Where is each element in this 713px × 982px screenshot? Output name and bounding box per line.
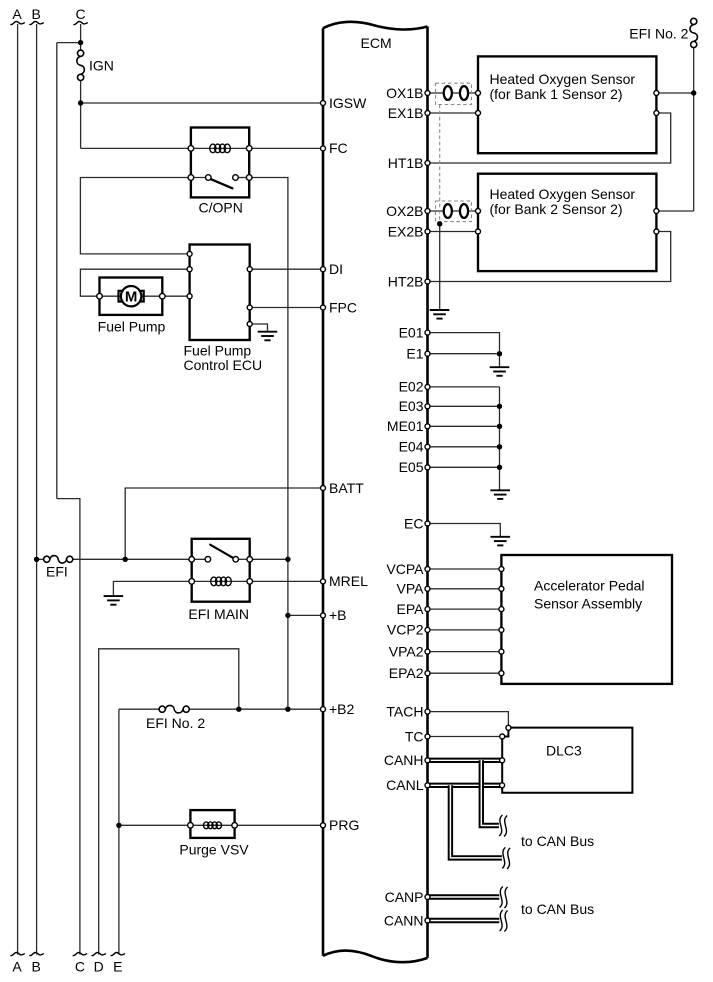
pin VCPA on ECM right edge	[425, 567, 430, 572]
pin CANN on ECM right edge	[425, 918, 430, 923]
break: bus E bottom	[111, 952, 125, 955]
pin label OX1B	[386, 85, 423, 101]
accelerator pedal sensor assembly box	[501, 555, 672, 684]
svg-text:VCP2: VCP2	[387, 622, 424, 638]
wire: shield drain to ground	[439, 224, 441, 309]
label heated oxygen sensor bank2	[490, 186, 636, 217]
svg-text:+B: +B	[329, 607, 347, 623]
pin: fuel pump control ECU left pins	[187, 251, 192, 298]
relay EFI MAIN coil pins	[189, 579, 253, 585]
pin: accelerator pedal sensor pins	[499, 567, 504, 676]
svg-text:Accelerator Pedal: Accelerator Pedal	[534, 577, 645, 593]
svg-text:EX2B: EX2B	[388, 223, 424, 239]
pin label E02	[399, 379, 424, 395]
node label C bottom	[75, 959, 85, 975]
svg-text:A: A	[12, 6, 22, 22]
wire: CANL bus (thick) ECM to DLC3	[428, 783, 503, 788]
wire: EFI MAIN coil row	[192, 580, 250, 582]
ECM right edge	[426, 27, 429, 958]
break: bus A top	[10, 21, 24, 24]
pin: bank2 sensor box pins	[476, 209, 659, 235]
svg-text:E: E	[113, 959, 122, 975]
svg-text:VCPA: VCPA	[386, 561, 424, 577]
svg-text:FPC: FPC	[329, 299, 357, 315]
svg-text:E02: E02	[399, 379, 424, 395]
node label A bottom	[12, 959, 22, 975]
svg-text:M: M	[125, 288, 138, 305]
svg-text:HT1B: HT1B	[388, 155, 424, 171]
pin VPA on ECM right edge	[425, 586, 430, 591]
wire: bus A vertical	[17, 24, 19, 955]
pin CANH on ECM right edge	[425, 758, 430, 763]
purge VSV coil	[204, 822, 222, 829]
pin label DI	[329, 261, 343, 277]
node label A top	[12, 6, 22, 22]
node label C top	[76, 6, 86, 22]
svg-text:MREL: MREL	[329, 573, 368, 589]
pin EX1B on ECM right edge	[425, 111, 430, 116]
wire: bank2 heater- return to HT2B	[428, 232, 671, 282]
node label B bottom	[32, 959, 41, 975]
label Fuel Pump Control ECU	[184, 343, 263, 374]
label to CAN Bus (upper)	[521, 833, 594, 849]
junction: E04 node	[497, 444, 502, 449]
ground: E1/E01	[490, 367, 510, 376]
wire: jog to bottom bus C	[57, 499, 80, 955]
pin E1 on ECM right edge	[425, 351, 430, 356]
wire: EFI No.2 vertical feed	[693, 48, 695, 211]
wire: E05 row	[428, 466, 500, 468]
svg-text:EFI MAIN: EFI MAIN	[188, 606, 249, 622]
svg-text:CANP: CANP	[385, 889, 424, 905]
pin label CANL	[386, 777, 424, 793]
svg-text:E01: E01	[399, 324, 424, 340]
wire: left branch vertical down to jog	[56, 43, 58, 499]
relay C/OPN coil pins	[188, 146, 252, 152]
wire: CANH bus (thick) ECM to DLC3	[428, 758, 503, 763]
pin label TC	[405, 728, 424, 744]
pin label EX1B	[388, 105, 424, 121]
wire: ECU ground stub	[250, 324, 268, 331]
wire: fuel pump motor row	[100, 295, 163, 297]
junction: PRG tap on bus E	[116, 823, 121, 828]
break: bus C bottom	[73, 952, 87, 955]
svg-text:CANN: CANN	[384, 912, 424, 928]
junction: IGSW tap	[78, 100, 83, 105]
svg-text:E1: E1	[406, 346, 423, 362]
svg-text:EFI No. 2: EFI No. 2	[146, 715, 205, 731]
svg-text:Heated Oxygen Sensor: Heated Oxygen Sensor	[490, 186, 636, 202]
wire: EFI fuse row left lead	[37, 558, 44, 560]
pin TACH on ECM right edge	[425, 709, 430, 714]
fuse EFI No.2 (+B2 row)	[159, 705, 189, 713]
junction: EFI No.2 heater feed	[691, 90, 696, 95]
wire: DI row left of ECU to fuel pump loop	[80, 269, 189, 296]
svg-text:B: B	[32, 6, 41, 22]
svg-text:IGN: IGN	[89, 58, 114, 74]
pin: fuel pump control ECU right pins	[247, 267, 252, 327]
ECM top wavy edge	[323, 22, 428, 30]
junction: E1 ground node	[497, 351, 502, 356]
svg-text:IGSW: IGSW	[329, 95, 367, 111]
pin label ME01	[387, 418, 424, 434]
svg-text:+B2: +B2	[329, 701, 355, 717]
relay C/OPN box	[191, 128, 249, 198]
svg-text:DI: DI	[329, 261, 343, 277]
break: CANL branch wire break	[502, 847, 510, 869]
relay C/OPN switch pins	[188, 175, 252, 181]
junction: BATT tap	[123, 557, 128, 562]
svg-text:Sensor Assembly: Sensor Assembly	[534, 595, 642, 611]
pin FC on ECM left edge	[321, 146, 326, 151]
svg-text:FC: FC	[329, 140, 348, 156]
pin label VCPA	[386, 561, 424, 577]
label EFI MAIN	[188, 606, 249, 622]
pin FPC on ECM left edge	[321, 305, 326, 310]
pin +B2 on ECM left edge	[321, 707, 326, 712]
wire: E01 row	[428, 333, 500, 354]
wire: CANN bus (thick)	[428, 918, 500, 923]
wire: E1 ground drop	[499, 354, 501, 367]
wire: OX2B row	[428, 210, 479, 212]
pin label CANN	[384, 912, 424, 928]
wire: +B2 row	[189, 708, 323, 710]
wire: bottom bus E	[118, 709, 120, 954]
label IGN	[89, 58, 114, 74]
pin E01 on ECM right edge	[425, 330, 430, 335]
pin label E05	[399, 459, 424, 475]
wire: FPC row	[250, 307, 323, 309]
svg-text:(for Bank 2 Sensor 2): (for Bank 2 Sensor 2)	[490, 201, 623, 217]
pin label CANH	[384, 752, 424, 768]
svg-text:EPA2: EPA2	[389, 665, 424, 681]
svg-text:CANL: CANL	[386, 777, 424, 793]
pin label EC	[404, 515, 423, 531]
pin VPA2 on ECM right edge	[425, 649, 430, 654]
pin label VPA2	[389, 643, 424, 659]
label Purge VSV	[179, 842, 249, 858]
svg-text:EX1B: EX1B	[388, 105, 424, 121]
label accelerator pedal sensor assembly	[534, 577, 645, 611]
wire: bank1 heater- return to HT1B	[428, 113, 671, 163]
pin OX1B on ECM right edge	[425, 91, 430, 96]
svg-text:C/OPN: C/OPN	[199, 200, 243, 216]
pin label MREL	[329, 573, 368, 589]
pin VCP2 on ECM right edge	[425, 627, 430, 632]
svg-text:VPA2: VPA2	[389, 643, 424, 659]
label EFI No. 2 (+B2 fuse)	[146, 715, 205, 731]
wire: VPA row	[428, 588, 502, 590]
break: bus A bottom	[10, 952, 24, 955]
svg-text:PRG: PRG	[329, 817, 359, 833]
wire: BATT row	[125, 488, 323, 559]
break: bus C top	[73, 21, 87, 24]
pin PRG on ECM left edge	[321, 823, 326, 828]
shield: dashed drain vertical	[439, 105, 441, 224]
break: CANN wire break	[500, 910, 508, 932]
pin: bank1 sensor box pins	[476, 91, 659, 116]
pin IGSW on ECM left edge	[321, 101, 326, 106]
pin E02 on ECM right edge	[425, 384, 430, 389]
ECM left edge	[322, 28, 325, 956]
junction: E05 node	[497, 465, 502, 470]
junction: ME01 node	[497, 424, 502, 429]
fuel pump control ECU box	[190, 245, 250, 341]
pin CANL on ECM right edge	[425, 783, 430, 788]
fuse EFI (horizontal)	[44, 556, 73, 564]
wire: EX2B row	[428, 231, 479, 233]
purge VSV pins	[188, 823, 238, 829]
twisted pair OX2B	[444, 204, 468, 218]
svg-text:EPA: EPA	[397, 601, 425, 617]
fuse IGN (vertical)	[77, 50, 85, 80]
shield: dashed box around OX2B twisted pair	[436, 201, 472, 222]
label EFI No. 2 (top)	[629, 26, 688, 42]
pin label FC	[329, 140, 348, 156]
pin label EX2B	[388, 223, 424, 239]
pin TC on ECM right edge	[425, 734, 430, 739]
wire: EFI MAIN switch output	[250, 558, 288, 560]
svg-text:OX1B: OX1B	[386, 85, 423, 101]
label to CAN Bus (lower)	[521, 901, 594, 917]
label C/OPN	[199, 200, 243, 216]
svg-text:VPA: VPA	[397, 581, 425, 597]
pin label E03	[399, 398, 424, 414]
ground: EC	[491, 537, 511, 546]
wire: E02 row	[428, 386, 500, 388]
wire: OX1B row	[428, 92, 479, 94]
wire: engine ground bus vertical	[499, 387, 501, 490]
label Fuel Pump (pump)	[98, 319, 166, 335]
wire: CANL branch to CAN bus	[450, 785, 502, 858]
wire: EPA row	[428, 608, 502, 610]
pin label EPA2	[389, 665, 424, 681]
pin E04 on ECM right edge	[425, 444, 430, 449]
junction: +B node	[285, 613, 290, 618]
wire: bus C vertical below IGN fuse	[80, 81, 82, 149]
svg-text:D: D	[94, 959, 104, 975]
svg-text:Control ECU: Control ECU	[184, 357, 263, 373]
svg-text:B: B	[32, 959, 41, 975]
label heated oxygen sensor bank1	[490, 71, 636, 102]
node label B top	[32, 6, 41, 22]
svg-text:E03: E03	[399, 398, 424, 414]
twisted pair OX1B	[444, 86, 468, 100]
svg-text:to CAN Bus: to CAN Bus	[521, 901, 594, 917]
relay C/OPN switch	[191, 175, 249, 189]
label EFI	[46, 564, 68, 580]
ground: fuel pump control ECU	[258, 332, 278, 341]
wire: bank2 heater+ from EFI No.2 line	[656, 210, 693, 212]
wire: VPA2 row	[428, 651, 502, 653]
wire: CANP bus (thick)	[428, 894, 500, 899]
relay EFI MAIN switch	[192, 545, 250, 562]
svg-text:ECM: ECM	[361, 35, 392, 51]
wire: EX1B row	[428, 112, 479, 114]
pin label +B2	[329, 701, 355, 717]
wire: DI row	[250, 268, 323, 270]
pin E03 on ECM right edge	[425, 404, 430, 409]
pin +B on ECM left edge	[321, 613, 326, 618]
wire: PRG row	[119, 824, 323, 826]
pin HT2B on ECM right edge	[425, 279, 430, 284]
pin label BATT	[329, 480, 364, 496]
svg-text:E04: E04	[399, 439, 424, 455]
fuse EFI No.2 top (vertical)	[690, 18, 698, 47]
pin MREL on ECM left edge	[321, 579, 326, 584]
junction: EFI fuse on bus B	[34, 557, 39, 562]
ECM bottom wavy edge	[323, 951, 428, 963]
pin label HT1B	[388, 155, 424, 171]
wire: C/OPN switch feed to Fuel Pump Control ECU pin 1	[80, 178, 191, 254]
wire: bottom bus D	[99, 649, 239, 955]
svg-text:OX2B: OX2B	[386, 203, 423, 219]
relay C/OPN coil	[210, 144, 231, 153]
svg-text:TC: TC	[405, 728, 424, 744]
pin label VCP2	[387, 622, 424, 638]
pin label IGSW	[329, 95, 367, 111]
pin HT1B on ECM right edge	[425, 161, 430, 166]
heated oxygen sensor bank2 box	[478, 174, 656, 271]
pin BATT on ECM left edge	[321, 486, 326, 491]
wire: +B2 row left lead	[119, 708, 159, 710]
pin EPA on ECM right edge	[425, 607, 430, 612]
svg-text:DLC3: DLC3	[546, 742, 582, 758]
svg-text:A: A	[12, 959, 22, 975]
pin label +B	[329, 607, 347, 623]
pin label E1	[406, 346, 423, 362]
svg-text:EFI No. 2: EFI No. 2	[629, 26, 688, 42]
svg-text:HT2B: HT2B	[388, 273, 424, 289]
wire: TACH row	[428, 712, 509, 728]
pin label CANP	[385, 889, 424, 905]
junction: EFI MAIN output node	[285, 557, 290, 562]
label ECM	[361, 35, 392, 51]
pin EPA2 on ECM right edge	[425, 671, 430, 676]
junction: +B2 node D	[236, 707, 241, 712]
node label D bottom	[94, 959, 104, 975]
wire: pump to ECU pin 3	[162, 295, 189, 297]
break: bus B bottom	[29, 952, 43, 955]
wire: EPA2 row	[428, 672, 502, 674]
wire: E1 row	[428, 353, 500, 355]
pin label TACH	[386, 703, 423, 719]
pin label E04	[399, 439, 424, 455]
svg-text:to CAN Bus: to CAN Bus	[521, 833, 594, 849]
pin label VPA	[397, 581, 425, 597]
svg-text:EC: EC	[404, 515, 423, 531]
pin OX2B on ECM right edge	[425, 209, 430, 214]
pin: DLC3 pins	[500, 725, 511, 788]
wire: VCP2 row	[428, 629, 502, 631]
wire: FC row through C/OPN coil	[81, 147, 323, 149]
break: CANH branch wire break	[499, 815, 507, 837]
relay EFI MAIN coil	[211, 577, 232, 586]
junction: C top branch	[78, 40, 83, 45]
wire: +B row	[288, 614, 323, 616]
wire: CANH branch to CAN bus	[481, 760, 499, 826]
wire: VCPA row	[428, 568, 502, 570]
svg-text:ME01: ME01	[387, 418, 424, 434]
svg-text:(for Bank 1 Sensor 2): (for Bank 1 Sensor 2)	[490, 86, 623, 102]
pin label PRG	[329, 817, 359, 833]
wire: E03 row	[428, 405, 500, 407]
shield: dashed box around OX1B twisted pair	[436, 83, 472, 104]
pin EX2B on ECM right edge	[425, 229, 430, 234]
wire: E04 row	[428, 446, 500, 448]
break: CANP wire break	[500, 887, 508, 909]
ground: shield drain	[430, 310, 450, 319]
ground: EFI MAIN coil	[104, 596, 124, 605]
pin EC on ECM right edge	[425, 521, 430, 526]
fuel pump motor M	[119, 286, 144, 306]
relay EFI MAIN box	[192, 539, 250, 602]
pin label HT2B	[388, 273, 424, 289]
svg-text:TACH: TACH	[386, 703, 423, 719]
wire: bus B vertical	[36, 24, 38, 955]
break: bus B top	[29, 21, 43, 24]
pin label E01	[399, 324, 424, 340]
wire: MREL row	[250, 580, 323, 582]
pin ME01 on ECM right edge	[425, 424, 430, 429]
ground: E02-E05 bus	[490, 490, 510, 499]
junction: +B2 node from +B	[285, 707, 290, 712]
node C-top junction wire to left branch	[57, 42, 81, 44]
wire: TC row	[428, 736, 503, 738]
svg-text:CANH: CANH	[384, 752, 424, 768]
svg-text:BATT: BATT	[329, 480, 364, 496]
svg-text:EFI: EFI	[46, 564, 68, 580]
svg-text:Fuel Pump: Fuel Pump	[98, 319, 166, 335]
purge VSV box	[190, 810, 234, 838]
label DLC3	[546, 742, 582, 758]
fuel pump box	[100, 278, 163, 315]
wire: C/OPN switch output to +B net vertical	[249, 178, 288, 710]
pin DI on ECM left edge	[321, 267, 326, 272]
svg-text:Fuel Pump: Fuel Pump	[184, 343, 252, 359]
node label E bottom	[113, 959, 122, 975]
wire: IGSW row	[81, 102, 323, 104]
svg-text:E05: E05	[399, 459, 424, 475]
pin E05 on ECM right edge	[425, 465, 430, 470]
fuel pump pins	[97, 293, 165, 299]
relay EFI MAIN switch pins	[189, 557, 253, 563]
pin label OX2B	[386, 203, 423, 219]
svg-text:Purge VSV: Purge VSV	[179, 842, 249, 858]
svg-text:Heated Oxygen Sensor: Heated Oxygen Sensor	[490, 71, 636, 87]
DLC3 box	[502, 728, 632, 793]
wire: ME01 row	[428, 425, 500, 427]
heated oxygen sensor bank1 box	[478, 56, 656, 153]
wire: EFI MAIN coil ground stub	[113, 581, 191, 595]
pin label EPA	[397, 601, 425, 617]
wire: bank1 heater+ to EFI No.2 line	[656, 92, 693, 94]
junction: shield drain node	[437, 221, 442, 226]
wire: EFI fuse row to EFI MAIN switch	[73, 558, 192, 560]
wire: EC row	[428, 524, 501, 537]
svg-text:C: C	[76, 6, 86, 22]
break: bus D bottom	[92, 952, 106, 955]
junction: E03 node	[497, 404, 502, 409]
wire: bus C top vertical above IGN fuse	[80, 24, 82, 50]
pin CANP on ECM right edge	[425, 895, 430, 900]
svg-text:C: C	[75, 959, 85, 975]
pin label FPC	[329, 299, 357, 315]
